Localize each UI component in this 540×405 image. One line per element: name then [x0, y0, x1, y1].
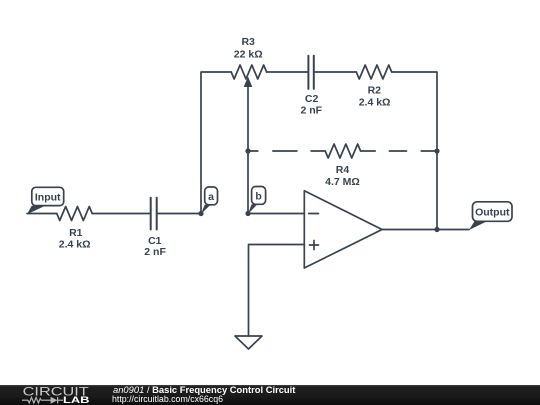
junction dot output [434, 227, 439, 232]
junction node b dot [245, 211, 250, 216]
svg-text:Output: Output [475, 206, 510, 218]
resistor R4 [325, 144, 360, 158]
footer bar [0, 385, 540, 405]
svg-text:R2: R2 [368, 85, 382, 97]
Output flag box [473, 202, 513, 222]
resistor R2 [356, 65, 391, 79]
junction dot wiper/dashed [245, 148, 250, 153]
ground symbol [235, 336, 262, 349]
svg-text:C2: C2 [305, 93, 319, 105]
potentiometer R3 wiper arrowhead [244, 77, 253, 88]
svg-text:LAB: LAB [63, 395, 90, 405]
wire node b to op-amp minus input [248, 213, 304, 215]
svg-text:Input: Input [35, 191, 61, 203]
svg-text:22 kΩ: 22 kΩ [234, 48, 263, 60]
node a flag box [205, 187, 218, 205]
svg-text:4.7 MΩ: 4.7 MΩ [325, 176, 360, 188]
potentiometer R3 wiper wire [247, 87, 249, 214]
Input flag box [32, 187, 64, 205]
CircuitLab logo [0, 385, 110, 405]
R4 right stub [361, 150, 376, 152]
Output flag pointer [469, 221, 487, 230]
wire C1 to node a [157, 213, 201, 215]
footer line 2 [112, 395, 223, 404]
Input flag pointer [27, 206, 46, 215]
svg-text:R1: R1 [69, 227, 83, 239]
resistor R3 (potentiometer body) [231, 65, 266, 79]
dashed feedback line segment 1 [248, 150, 258, 152]
wire C2 to R2 [314, 71, 357, 73]
footer line 1 [113, 385, 295, 394]
wire R2 to right corner and down [392, 72, 437, 230]
svg-text:R3: R3 [241, 36, 255, 48]
node b flag pointer [248, 204, 257, 214]
junction node a dot [198, 211, 203, 216]
wire R1 to C1 [92, 213, 151, 215]
node a flag pointer [201, 205, 211, 214]
svg-text:2 nF: 2 nF [301, 105, 323, 117]
resistor R1 [57, 207, 92, 221]
capacitor C2 [307, 56, 309, 89]
junction dot dashed/right wire [434, 148, 439, 153]
capacitor C1 [150, 198, 152, 230]
svg-text:2 nF: 2 nF [144, 246, 166, 258]
wire R3 to C2 [267, 71, 309, 73]
svg-text:2.4 kΩ: 2.4 kΩ [359, 97, 391, 109]
op-amp minus sign [309, 213, 319, 215]
wire op-amp plus input to ground [249, 245, 305, 337]
op-amp plus sign [310, 244, 319, 246]
svg-text:a: a [208, 191, 214, 203]
wire op-amp output [382, 229, 469, 231]
dashed feedback line segment to right wire [421, 150, 437, 152]
node b flag box [252, 187, 266, 205]
op-amp U1 triangle [304, 191, 382, 268]
wire input to R1 [27, 213, 57, 215]
svg-text:b: b [255, 191, 261, 203]
svg-text:R4: R4 [336, 164, 350, 176]
dashed feedback line dash [389, 150, 406, 152]
svg-text:2.4 kΩ: 2.4 kΩ [59, 239, 91, 251]
dashed feedback line dash [273, 150, 297, 152]
R4 left stub [311, 150, 325, 152]
wire top-left vertical (node a to top loop) [201, 72, 231, 214]
